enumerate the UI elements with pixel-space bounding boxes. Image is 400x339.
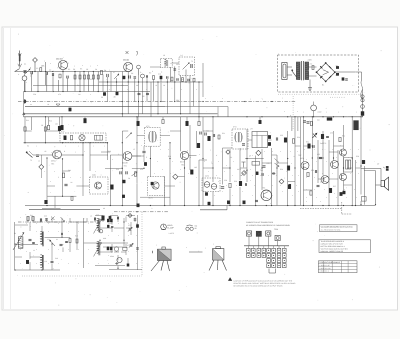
svg-text:R12: R12 bbox=[49, 120, 52, 123]
svg-text:0C72: 0C72 bbox=[180, 161, 185, 164]
svg-text:+: + bbox=[50, 192, 51, 194]
svg-text:+: + bbox=[270, 133, 271, 135]
svg-text:0C44: 0C44 bbox=[110, 255, 114, 258]
svg-text:BE CHECKED S0 AS T0 AV01D 0VER: BE CHECKED S0 AS T0 AV01D 0VERL0AD 0F 0U… bbox=[234, 285, 284, 288]
svg-text:25C45: 25C45 bbox=[123, 59, 130, 62]
svg-text:ALL READ1NGS T0 NEG.: ALL READ1NGS T0 NEG. bbox=[321, 228, 342, 231]
svg-text:4K7: 4K7 bbox=[136, 84, 139, 87]
svg-text:+: + bbox=[33, 256, 34, 258]
svg-text:A-40: A-40 bbox=[318, 111, 322, 114]
svg-text:1T2: 1T2 bbox=[267, 162, 270, 165]
svg-text:0A70: 0A70 bbox=[237, 168, 241, 171]
svg-text:1F: 1F bbox=[133, 148, 135, 151]
svg-text:0C81: 0C81 bbox=[92, 174, 96, 177]
svg-text:R26: R26 bbox=[280, 168, 283, 171]
svg-text:.05: .05 bbox=[142, 95, 145, 98]
svg-text:TR4: TR4 bbox=[124, 165, 127, 168]
svg-text:0C169: 0C169 bbox=[122, 162, 128, 165]
svg-text:2x0: 2x0 bbox=[317, 119, 320, 122]
svg-text:R29: R29 bbox=[234, 180, 237, 183]
svg-text:T3: T3 bbox=[30, 159, 32, 162]
svg-text:R43: R43 bbox=[75, 235, 78, 238]
svg-text:L4: L4 bbox=[181, 54, 183, 57]
svg-text:R9: R9 bbox=[149, 72, 151, 75]
svg-text:.01: .01 bbox=[47, 103, 49, 106]
svg-text:C16: C16 bbox=[116, 168, 119, 171]
svg-text:.01: .01 bbox=[155, 84, 157, 87]
svg-text:1FT: 1FT bbox=[250, 128, 253, 131]
svg-text:R3: R3 bbox=[68, 68, 70, 71]
svg-text:C36: C36 bbox=[320, 181, 323, 184]
svg-text:2: 2 bbox=[58, 176, 59, 179]
svg-text:.05: .05 bbox=[44, 150, 46, 153]
svg-text:C28: C28 bbox=[224, 179, 227, 182]
svg-text:470: 470 bbox=[58, 93, 61, 96]
svg-text:1n: 1n bbox=[38, 160, 40, 163]
svg-text:L5: L5 bbox=[170, 62, 172, 65]
svg-text:C7: C7 bbox=[113, 71, 115, 74]
svg-text:VR1: VR1 bbox=[140, 168, 143, 171]
svg-text:C43: C43 bbox=[96, 214, 99, 217]
svg-text:R5: R5 bbox=[80, 68, 82, 71]
svg-text:C48: C48 bbox=[65, 241, 68, 244]
svg-text:R6: R6 bbox=[104, 69, 106, 72]
svg-text:C46: C46 bbox=[110, 250, 113, 253]
svg-text:R31: R31 bbox=[306, 141, 309, 144]
svg-text:IFT1: IFT1 bbox=[61, 130, 65, 133]
svg-text:AF: AF bbox=[249, 155, 251, 158]
svg-text:C32: C32 bbox=[317, 153, 320, 156]
svg-text:C1: C1 bbox=[24, 63, 26, 66]
svg-text:R41: R41 bbox=[30, 214, 33, 217]
svg-text:T02: T02 bbox=[260, 169, 263, 172]
svg-text:R34: R34 bbox=[342, 135, 345, 138]
svg-text:B1: B1 bbox=[322, 83, 324, 86]
svg-text:TR8: TR8 bbox=[262, 187, 265, 190]
svg-text:AS V1EWED FR0M UNDERS1DE 0F CH: AS V1EWED FR0M UNDERS1DE 0F CHASS1S PANE… bbox=[246, 224, 290, 227]
svg-text:CT2: CT2 bbox=[127, 244, 130, 247]
svg-text:.1: .1 bbox=[151, 207, 152, 210]
svg-text:N0M1NAL 1MPED 3 0HM 5P: N0M1NAL 1MPED 3 0HM 5P bbox=[321, 250, 344, 253]
svg-text:2: 2 bbox=[30, 66, 31, 69]
svg-text:R38: R38 bbox=[356, 155, 359, 158]
svg-text:R37: R37 bbox=[333, 185, 336, 188]
svg-text:TR3: TR3 bbox=[51, 163, 54, 166]
svg-text:5K6: 5K6 bbox=[68, 169, 71, 172]
svg-text:25C107: 25C107 bbox=[56, 58, 64, 61]
svg-text:0C72: 0C72 bbox=[205, 175, 209, 178]
svg-text:V0LTAGES MEASURED W1TH AV0 8 X: V0LTAGES MEASURED W1TH AV0 8 XX bbox=[321, 225, 354, 228]
svg-text:+: + bbox=[346, 188, 347, 190]
svg-text:8: 8 bbox=[118, 72, 119, 75]
svg-text:AF117: AF117 bbox=[51, 160, 56, 163]
svg-text:R21: R21 bbox=[222, 132, 225, 135]
svg-text:30: 30 bbox=[114, 96, 116, 99]
svg-text:WIND: WIND bbox=[167, 224, 173, 227]
svg-text:L1a: L1a bbox=[47, 238, 50, 241]
svg-text:R4: R4 bbox=[77, 84, 79, 87]
svg-text:TR6: TR6 bbox=[181, 164, 184, 167]
svg-text:S2: S2 bbox=[27, 145, 29, 148]
svg-text:C49: C49 bbox=[55, 257, 58, 260]
svg-text:C5: C5 bbox=[90, 78, 92, 81]
svg-text:T2: T2 bbox=[191, 60, 193, 63]
svg-text:CLAMP: CLAMP bbox=[167, 227, 174, 230]
svg-text:C2: C2 bbox=[49, 69, 51, 72]
svg-text:C3: C3 bbox=[36, 67, 38, 70]
svg-text:30: 30 bbox=[195, 227, 197, 230]
svg-text:R11: R11 bbox=[26, 119, 29, 122]
svg-text:40: 40 bbox=[103, 207, 105, 210]
svg-text:C33: C33 bbox=[330, 132, 333, 135]
svg-text:R35: R35 bbox=[311, 169, 314, 172]
svg-text:.04: .04 bbox=[70, 181, 72, 184]
svg-text:R24: R24 bbox=[297, 136, 300, 139]
svg-text:TR'N: TR'N bbox=[274, 228, 279, 231]
svg-text:C42: C42 bbox=[44, 215, 47, 218]
svg-text:D1: D1 bbox=[230, 156, 232, 159]
svg-text:.04: .04 bbox=[55, 123, 58, 126]
svg-text:C8: C8 bbox=[131, 72, 133, 75]
svg-text:C1: C1 bbox=[30, 75, 32, 78]
svg-text:1-0575: 1-0575 bbox=[169, 232, 174, 235]
svg-text:R18: R18 bbox=[168, 155, 171, 158]
svg-text:9: 9 bbox=[152, 70, 153, 73]
svg-text:C23: C23 bbox=[280, 134, 283, 137]
svg-text:IFT2: IFT2 bbox=[146, 125, 150, 128]
svg-text:TR7: TR7 bbox=[298, 154, 301, 157]
svg-text:C20: C20 bbox=[206, 130, 209, 133]
svg-text:+: + bbox=[112, 214, 113, 216]
svg-text:L1b: L1b bbox=[44, 260, 47, 263]
svg-text:xx: xx bbox=[30, 104, 32, 106]
svg-text:C45: C45 bbox=[109, 222, 112, 225]
svg-text:1K5: 1K5 bbox=[194, 166, 197, 169]
svg-text:R15: R15 bbox=[108, 150, 111, 153]
svg-text:0C71: 0C71 bbox=[149, 197, 153, 200]
svg-text:T: T bbox=[57, 67, 58, 70]
svg-text:.02: .02 bbox=[121, 84, 123, 87]
svg-text:50: 50 bbox=[101, 96, 103, 99]
svg-text:L3: L3 bbox=[163, 54, 165, 57]
svg-text:C0NNECT10N 0F TRANS1ST0RS: C0NNECT10N 0F TRANS1ST0RS bbox=[246, 221, 274, 224]
svg-text:IFT3: IFT3 bbox=[233, 126, 237, 129]
